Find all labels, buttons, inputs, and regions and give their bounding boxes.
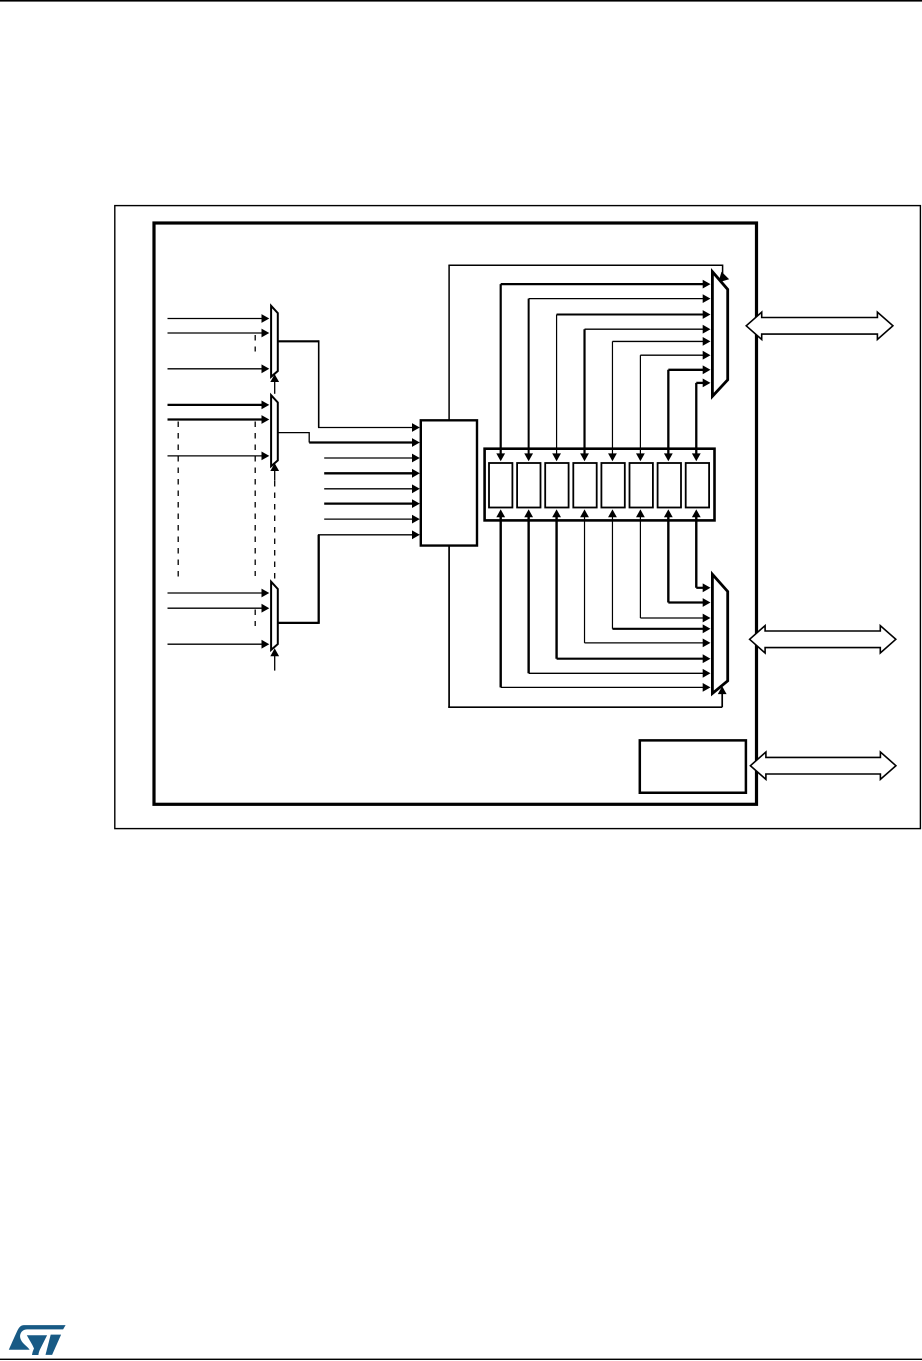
wire: mux C output to control block (input 8) <box>278 530 420 624</box>
wire: register R6 read path to mux1 (input 6) and write arrow <box>636 351 711 461</box>
register R7 <box>658 463 681 508</box>
wire: input 5 to control block <box>324 484 420 493</box>
wire: mux B output to control block (input 2) <box>278 432 420 447</box>
wire: input 4 to control block <box>324 469 420 478</box>
wire: register R1 output path to mux2 and load arrow <box>496 509 710 691</box>
wire: register R1 read path to mux1 (input 1) and write arrow <box>496 280 710 462</box>
wire: input 2 to mux B <box>168 415 270 424</box>
wire: data bus from control block top to output mux1 select <box>448 265 729 421</box>
wire: mux A output to control block (input 1) <box>278 340 420 432</box>
mux 1 (output multiplexer, top right) <box>712 272 727 397</box>
wire: select line into mux A (from mux B top) <box>270 374 279 394</box>
wire: select line mux B to mux C (dashed continuation) <box>274 481 276 581</box>
wire: register R4 read path to mux1 (input 4) and write arrow <box>580 325 710 461</box>
interface block (bottom right) <box>640 740 746 792</box>
mux C (input multiplexer, bottom left) <box>271 582 278 650</box>
wire: input 2 to mux A <box>168 329 270 338</box>
bidirectional port bus arrow 1 (top) <box>746 312 893 339</box>
wire: repetition ellipsis dashed line 2 <box>254 422 256 577</box>
wire: register R3 output path to mux2 and load arrow <box>552 509 710 663</box>
wire: input 7 to control block <box>324 515 420 524</box>
wire: repetition ellipsis dashed line 1 <box>177 422 179 578</box>
bidirectional port bus arrow 3 (bottom) <box>750 752 896 779</box>
mux B (input multiplexer, middle left) <box>271 395 278 466</box>
register R3 <box>545 463 568 508</box>
control logic block U1 <box>421 420 477 545</box>
wire: register R7 output path to mux2 and load arrow <box>664 509 711 606</box>
register R2 <box>517 463 540 508</box>
wire: register R3 read path to mux1 (input 3) and write arrow <box>552 310 710 461</box>
wire: input 2 to mux C <box>168 604 270 613</box>
page bottom rule <box>0 1359 922 1360</box>
wire: input 3 to mux B <box>168 452 270 461</box>
register bank enclosure <box>485 449 715 521</box>
wire: register R2 read path to mux1 (input 2) and write arrow <box>524 294 710 461</box>
wire: register R8 output path to mux2 and load arrow <box>692 509 711 592</box>
bidirectional port bus arrow 2 (middle) <box>750 626 896 653</box>
wire: select line into mux B (solid part) <box>270 463 279 481</box>
register R6 <box>630 463 653 508</box>
wire: register R8 read path to mux1 (input 8) and write arrow <box>692 379 711 462</box>
wire: input 3 to mux A <box>168 364 270 373</box>
register R8 <box>686 463 709 508</box>
register R4 <box>573 463 596 508</box>
wire: register R2 output path to mux2 and load arrow <box>524 509 710 677</box>
wire: register R4 output path to mux2 and load arrow <box>580 509 710 647</box>
mux 2 (output multiplexer, bottom right) <box>712 574 727 693</box>
wire: register R6 output path to mux2 and load arrow <box>636 509 711 622</box>
wire: input 1 to mux A <box>168 314 270 323</box>
wire: ellipsis dash between mux A inputs <box>254 335 256 352</box>
wire: register R7 read path to mux1 (input 7) and write arrow <box>664 365 711 461</box>
wire: input 1 to mux B <box>168 401 270 410</box>
register R1 <box>489 463 512 508</box>
wire: input 3 to mux C <box>168 640 270 649</box>
wire: input 3 to control block <box>324 454 420 463</box>
wire: input 6 to control block <box>324 499 420 508</box>
ST Microelectronics logo <box>9 1325 66 1355</box>
page top rule <box>0 0 922 2</box>
register R5 <box>601 463 624 508</box>
wire: register R5 read path to mux1 (input 5) and write arrow <box>608 337 710 461</box>
wire: register R5 output path to mux2 and load arrow <box>608 509 710 633</box>
wire: ellipsis dash between mux C inputs <box>254 610 256 627</box>
wire: data bus from control block bottom to output mux2 select <box>448 546 726 708</box>
wire: select line into mux C bottom <box>270 648 279 670</box>
wire: input 1 to mux C <box>168 589 270 598</box>
mux A (input multiplexer, top left) <box>271 306 278 377</box>
